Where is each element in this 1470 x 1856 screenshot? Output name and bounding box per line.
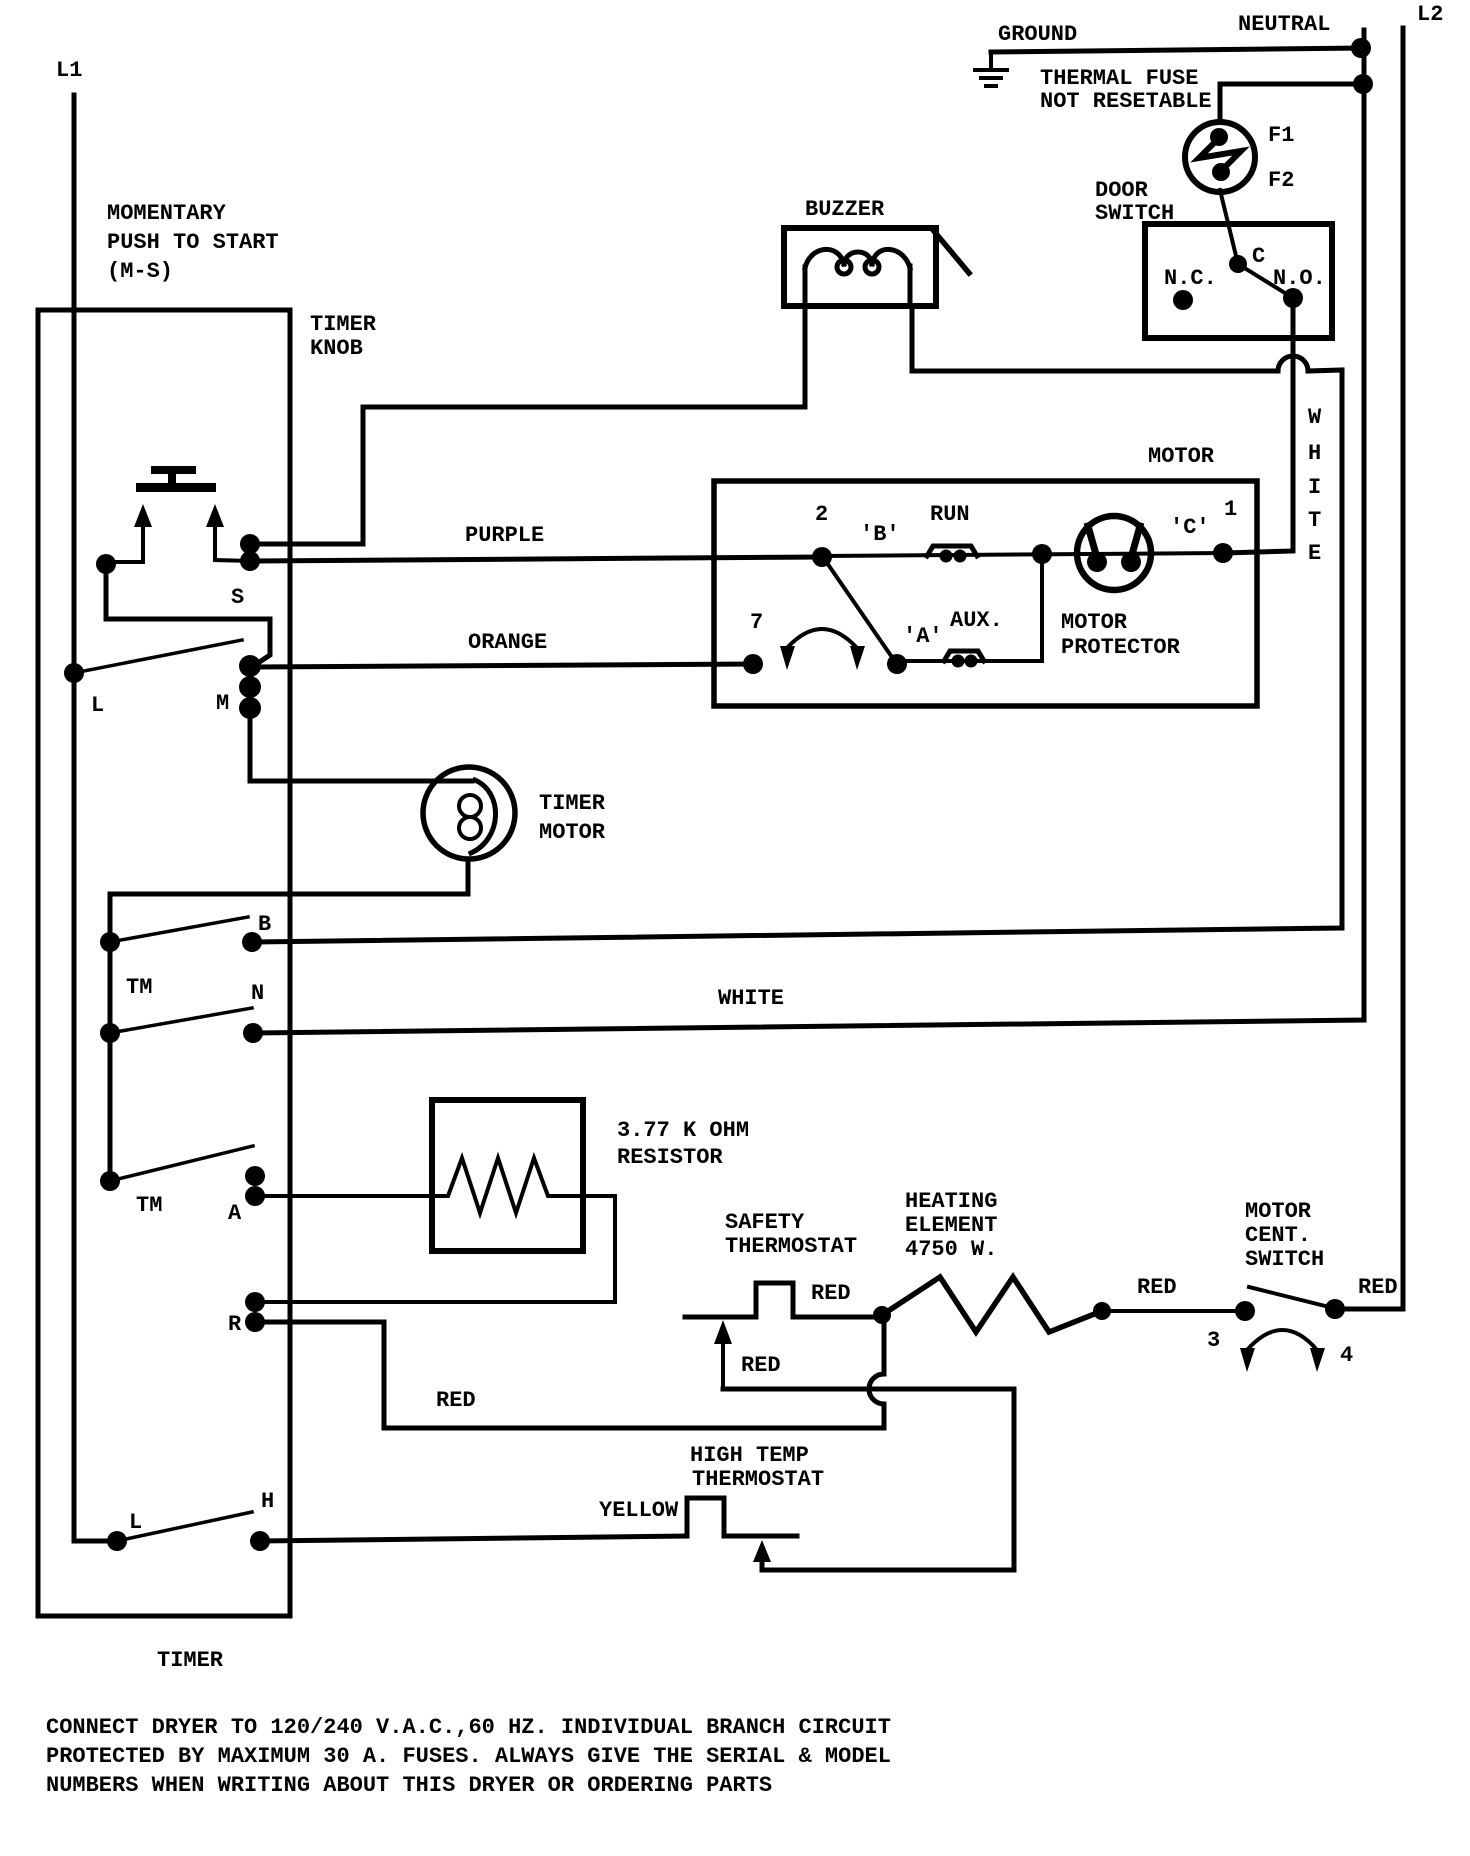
svg-text:RED: RED — [436, 1388, 476, 1413]
wire L1 to bottom L contact — [74, 1539, 117, 1544]
buzzer box — [784, 228, 936, 306]
push button arrow left — [141, 525, 145, 562]
wire buzzer left lead down and to timer S — [250, 306, 805, 544]
wire R lower to RED loop — [255, 1322, 884, 1428]
timer motor — [423, 767, 515, 859]
motor cent switch arc arrow — [1247, 1330, 1317, 1350]
aux branch wire — [897, 554, 1042, 661]
pin 7 — [743, 654, 763, 674]
svg-text:YELLOW: YELLOW — [599, 1498, 679, 1523]
svg-text:T: T — [1308, 508, 1321, 533]
svg-text:C: C — [1252, 244, 1265, 269]
svg-text:HIGH TEMP: HIGH TEMP — [690, 1443, 809, 1468]
pin S (two dots) — [240, 534, 260, 554]
svg-text:B: B — [258, 912, 271, 937]
pin A (two dots) — [245, 1166, 265, 1186]
svg-text:N.C.: N.C. — [1164, 266, 1217, 291]
push button arrow right — [213, 525, 217, 560]
svg-text:NUMBERS WHEN WRITING ABOUT THI: NUMBERS WHEN WRITING ABOUT THIS DRYER OR… — [46, 1773, 772, 1798]
motor arc arrow — [787, 629, 857, 648]
pin C — [1229, 255, 1247, 273]
pin 1 — [1213, 543, 1233, 563]
svg-text:RED: RED — [1358, 1275, 1398, 1300]
heating element — [882, 1277, 1102, 1332]
svg-text:L1: L1 — [56, 58, 82, 83]
pin B — [242, 932, 262, 952]
wire A to resistor, zigzag, to R — [255, 1158, 615, 1302]
svg-text:PROTECTOR: PROTECTOR — [1061, 635, 1181, 660]
motor switch blade 2 to A — [825, 560, 896, 663]
door switch blade C to N.O. — [1238, 264, 1293, 298]
svg-text:HEATING: HEATING — [905, 1189, 997, 1214]
safety thermostat arrow — [714, 1320, 732, 1344]
wire neutral to thermal fuse — [1220, 84, 1363, 122]
svg-text:7: 7 — [750, 610, 763, 635]
svg-text:MOMENTARY: MOMENTARY — [107, 201, 227, 226]
svg-text:'B': 'B' — [860, 522, 900, 547]
timer box — [38, 310, 290, 1616]
svg-text:3.77 K OHM: 3.77 K OHM — [617, 1118, 749, 1143]
pin 2 — [812, 547, 832, 567]
pin TM1 — [100, 932, 120, 952]
svg-text:TIMER: TIMER — [539, 791, 606, 816]
pin A aux — [887, 654, 907, 674]
svg-text:PROTECTED BY MAXIMUM 30 A. FUS: PROTECTED BY MAXIMUM 30 A. FUSES. ALWAYS… — [46, 1744, 891, 1769]
pin TM3 — [100, 1171, 120, 1191]
door switch box — [1145, 224, 1332, 338]
svg-text:R: R — [228, 1312, 242, 1337]
svg-text:4: 4 — [1340, 1343, 1353, 1368]
wire ground to neutral — [991, 48, 1362, 52]
svg-text:'A': 'A' — [903, 624, 943, 649]
wire N.O. down to motor pin 1 — [1223, 298, 1293, 553]
svg-text:H: H — [1308, 441, 1321, 466]
svg-text:H: H — [261, 1489, 274, 1514]
wire neutral rail — [253, 30, 1364, 1033]
svg-text:AUX.: AUX. — [950, 608, 1003, 633]
svg-text:THERMOSTAT: THERMOSTAT — [725, 1234, 857, 1259]
wire left contact to arrow — [106, 560, 143, 564]
wire PURPLE S to motor 2 — [250, 557, 822, 561]
svg-text:BUZZER: BUZZER — [805, 197, 885, 222]
wire left contact down to M jog — [106, 564, 270, 667]
svg-text:L: L — [129, 1510, 142, 1535]
pin N — [243, 1023, 263, 1043]
wire ORANGE M to motor 7 — [250, 664, 753, 667]
svg-text:TIMER: TIMER — [310, 312, 377, 337]
svg-text:W: W — [1308, 405, 1322, 430]
wire L1 rail — [72, 95, 77, 1541]
pin 4 — [1325, 1299, 1345, 1319]
junction ground-neutral — [1351, 38, 1371, 58]
svg-text:PUSH TO START: PUSH TO START — [107, 230, 279, 255]
svg-text:MOTOR: MOTOR — [1061, 610, 1128, 635]
pin left contact — [96, 554, 116, 574]
svg-text:N.O.: N.O. — [1273, 266, 1326, 291]
pin R (two dots) — [245, 1292, 265, 1312]
svg-text:MOTOR: MOTOR — [539, 820, 606, 845]
svg-text:NOT RESETABLE: NOT RESETABLE — [1040, 89, 1212, 114]
junction run-aux — [1032, 544, 1052, 564]
thermal fuse F1-F2 — [1185, 122, 1255, 192]
timer blade TM2 to N — [110, 1008, 252, 1033]
svg-text:WHITE: WHITE — [718, 986, 784, 1011]
svg-text:SAFETY: SAFETY — [725, 1210, 805, 1235]
wire white rail down to timer B — [252, 370, 1342, 942]
svg-text:F1: F1 — [1268, 123, 1294, 148]
safety thermostat — [685, 1283, 876, 1317]
pin N.O. — [1283, 288, 1303, 308]
motor main run line — [822, 553, 1223, 556]
svg-text:TIMER: TIMER — [157, 1648, 224, 1673]
svg-text:4750 W.: 4750 W. — [905, 1237, 997, 1262]
svg-text:RED: RED — [741, 1353, 781, 1378]
svg-text:RED: RED — [1137, 1275, 1177, 1300]
svg-text:I: I — [1308, 475, 1321, 500]
wire RED heater to switch 3 — [1102, 1309, 1245, 1313]
wire safety arrow to high temp arrow — [723, 1389, 1014, 1570]
wire timer motor down to TM rail — [110, 859, 468, 1181]
svg-text:2: 2 — [815, 502, 828, 527]
pin L contact — [64, 663, 84, 683]
svg-text:L: L — [91, 693, 104, 718]
motor box — [714, 481, 1257, 706]
svg-text:TM: TM — [126, 975, 152, 1000]
svg-text:A: A — [228, 1201, 242, 1226]
timer blade TM1 to B — [110, 917, 248, 942]
svg-text:THERMAL FUSE: THERMAL FUSE — [1040, 66, 1198, 91]
svg-text:RED: RED — [811, 1281, 851, 1306]
timer blade L to H — [117, 1512, 252, 1541]
node WHITE vertical label — [1308, 405, 1322, 566]
svg-text:GROUND: GROUND — [998, 22, 1077, 47]
AUX coil — [944, 651, 984, 661]
high temp thermostat arrow — [753, 1540, 771, 1562]
junction fuse-neutral — [1353, 74, 1373, 94]
junction heater left — [873, 1306, 891, 1324]
wire H to high temp thermostat — [260, 1536, 687, 1541]
svg-text:THERMOSTAT: THERMOSTAT — [692, 1467, 824, 1492]
svg-text:1: 1 — [1224, 497, 1237, 522]
wire L2 rail — [1335, 28, 1403, 1309]
high temp thermostat — [687, 1498, 797, 1536]
svg-text:F2: F2 — [1268, 168, 1294, 193]
wire hop up to heater junction — [869, 1315, 884, 1428]
svg-text:N: N — [251, 981, 264, 1006]
resistor R 3.77K box — [432, 1100, 583, 1251]
motor cent switch blade — [1249, 1287, 1325, 1306]
svg-text:CENT.: CENT. — [1245, 1223, 1311, 1248]
svg-text:MOTOR: MOTOR — [1148, 444, 1215, 469]
wire buzzer right to white rail (hops over N.O. wire) — [912, 306, 1342, 371]
svg-text:E: E — [1308, 541, 1321, 566]
push button — [136, 466, 216, 492]
svg-text:'C': 'C' — [1170, 515, 1210, 540]
svg-text:RESISTOR: RESISTOR — [617, 1145, 723, 1170]
svg-text:PURPLE: PURPLE — [465, 523, 544, 548]
timer blade L to M — [74, 640, 242, 673]
svg-text:SWITCH: SWITCH — [1245, 1247, 1324, 1272]
ground — [975, 52, 1007, 86]
svg-text:CONNECT DRYER TO 120/240 V.A.C: CONNECT DRYER TO 120/240 V.A.C.,60 HZ. I… — [46, 1715, 891, 1740]
svg-text:(M-S): (M-S) — [107, 259, 173, 284]
wire M down to timer motor — [250, 708, 472, 781]
buzzer striker — [933, 230, 969, 273]
buzzer coil — [805, 249, 910, 306]
svg-text:ORANGE: ORANGE — [468, 630, 547, 655]
pin N.C. — [1173, 290, 1193, 310]
svg-text:3: 3 — [1207, 1328, 1220, 1353]
caption — [46, 1715, 891, 1798]
pin H — [250, 1531, 270, 1551]
timer blade TM3 to A — [110, 1146, 253, 1181]
pin 3 — [1235, 1301, 1255, 1321]
pin M (three dots) — [239, 655, 261, 677]
svg-text:ELEMENT: ELEMENT — [905, 1213, 997, 1238]
svg-text:M: M — [216, 691, 229, 716]
svg-text:DOOR: DOOR — [1095, 178, 1149, 203]
svg-text:KNOB: KNOB — [310, 336, 363, 361]
pin TM2 — [100, 1023, 120, 1043]
motor protector — [1077, 516, 1151, 590]
wire fuse to door switch C — [1220, 190, 1237, 260]
svg-text:MOTOR: MOTOR — [1245, 1199, 1312, 1224]
junction heater right — [1093, 1302, 1111, 1320]
svg-text:S: S — [231, 585, 244, 610]
svg-text:RUN: RUN — [930, 502, 970, 527]
svg-text:TM: TM — [136, 1193, 162, 1218]
wire right arrow to S — [215, 560, 250, 561]
svg-text:L2: L2 — [1417, 2, 1443, 27]
svg-text:NEUTRAL: NEUTRAL — [1238, 12, 1330, 37]
pin L bottom — [107, 1531, 127, 1551]
